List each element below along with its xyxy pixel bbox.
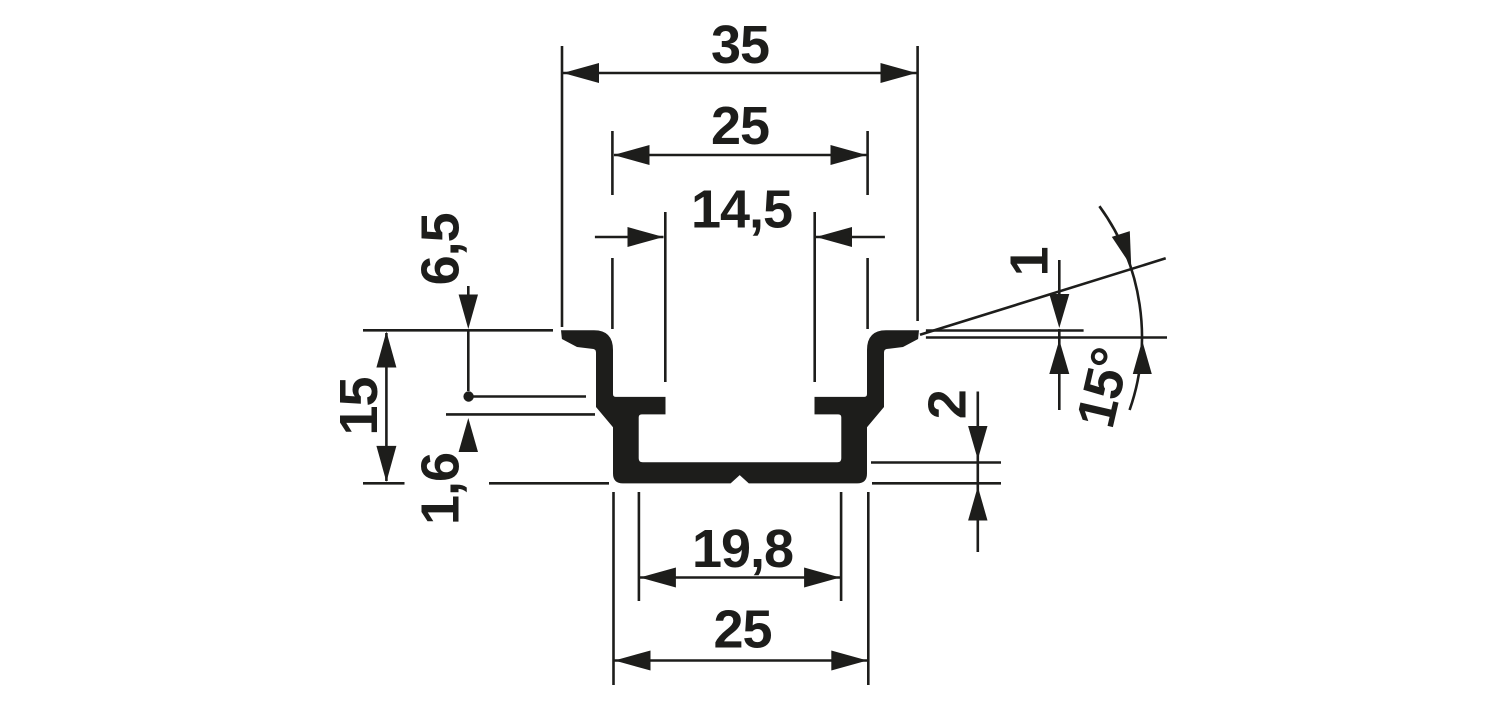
svg-text:14,5: 14,5 [691,179,792,239]
svg-text:2: 2 [918,390,978,419]
svg-text:19,8: 19,8 [692,519,793,579]
svg-text:15: 15 [329,377,389,435]
svg-text:25: 25 [711,96,769,156]
svg-text:25: 25 [713,600,771,660]
svg-text:6,5: 6,5 [411,213,471,285]
svg-text:1,6: 1,6 [411,453,471,525]
svg-text:35: 35 [711,15,769,75]
svg-text:1: 1 [999,247,1059,276]
